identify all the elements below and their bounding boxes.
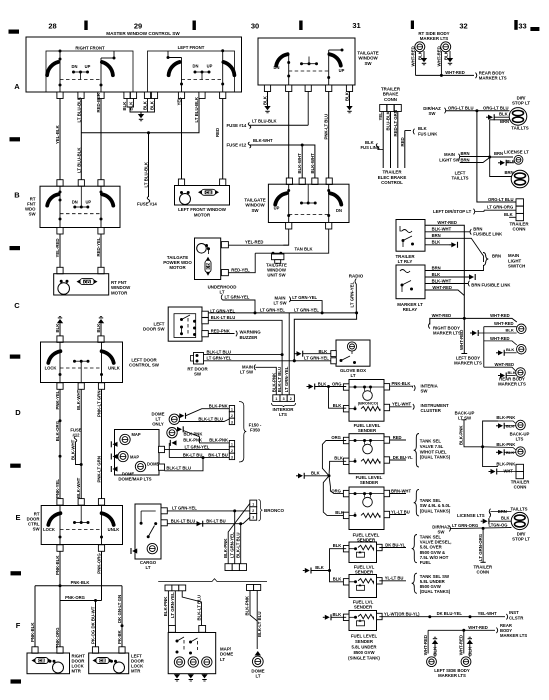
rt side body marker lamp 1 <box>415 42 425 52</box>
svg-text:BLK-PNK: BLK-PNK <box>496 462 515 467</box>
svg-text:PNK-LT GRN: PNK-LT GRN <box>97 456 102 482</box>
svg-text:BLK: BLK <box>504 212 513 217</box>
map dome lt box <box>168 633 216 674</box>
warning buzzer callout <box>240 330 262 340</box>
sender4 feed <box>333 543 342 548</box>
master window control switch box <box>26 31 242 92</box>
left door lock caption <box>131 654 145 674</box>
tailgate power motor pins <box>221 242 228 276</box>
svg-text:FUSIBLE LINK: FUSIBLE LINK <box>473 232 502 237</box>
rt fnt window motor pins <box>57 267 104 274</box>
tailgate A pin x288.7 <box>286 85 292 92</box>
dome lamp single <box>252 651 263 667</box>
svg-text:MOTOR: MOTOR <box>194 212 211 217</box>
svg-text:TRAILER: TRAILER <box>382 170 402 175</box>
inst clstr callout <box>509 610 524 620</box>
svg-text:CONTROL SW: CONTROL SW <box>129 363 160 368</box>
fuse 12 branch <box>70 427 81 464</box>
svg-text:BLK: BLK <box>334 456 343 461</box>
svg-text:SW: SW <box>194 372 202 377</box>
trailer lt rly caption <box>395 254 415 264</box>
glove box internals <box>340 351 357 364</box>
svg-text:BLK-PNK: BLK-PNK <box>183 438 202 443</box>
blk-lt blu wire to conn A <box>179 416 229 421</box>
master sw pin x222.7 <box>220 92 226 99</box>
svg-text:STOP LT: STOP LT <box>512 537 530 542</box>
svg-text:MAP/: MAP/ <box>220 646 232 651</box>
svg-text:BLK: BLK <box>129 101 134 111</box>
blk-pnk row to conn B <box>183 437 229 443</box>
right front dashed link <box>60 79 101 81</box>
svg-text:RED-YEL: RED-YEL <box>96 237 101 256</box>
tank sel valve diesel brace <box>412 535 452 566</box>
sender5 caption <box>353 600 374 610</box>
grid ruler top <box>9 20 540 34</box>
svg-text:LT GRN-YEL: LT GRN-YEL <box>172 505 197 510</box>
left side lamp 1 <box>423 630 438 666</box>
svg-text:WHT-RED: WHT-RED <box>432 313 452 318</box>
blk-pnk wire lamp2 <box>178 429 202 436</box>
rear body marker feed wire <box>416 70 507 81</box>
tailgate power motor CB <box>205 257 211 276</box>
svg-text:UP: UP <box>85 199 91 204</box>
svg-text:BLK-LT BLU: BLK-LT BLU <box>171 518 196 523</box>
svg-text:BLK: BLK <box>311 471 320 476</box>
master sw pin x127 <box>124 92 130 99</box>
svg-text:PNK-YEL: PNK-YEL <box>55 479 60 498</box>
taillts caption 2 <box>510 507 527 512</box>
sender6 out <box>379 611 507 619</box>
dome lt wires <box>245 591 262 650</box>
tailgate A left arc <box>276 54 287 65</box>
wire RED-YEL <box>96 234 101 268</box>
left door ctrl labels <box>45 365 120 370</box>
svg-text:BLK: BLK <box>506 328 514 333</box>
svg-text:VALVE 7.5L: VALVE 7.5L <box>420 444 444 449</box>
rt door ctrl right arc <box>102 513 114 525</box>
marker rly blk-wht row <box>425 278 510 287</box>
svg-text:SW: SW <box>33 526 41 531</box>
main light switch brace (col 32) <box>483 253 525 269</box>
svg-text:BLK: BLK <box>150 100 155 110</box>
svg-text:SW: SW <box>29 212 37 217</box>
rt fnt window motor caption <box>111 280 131 295</box>
svg-text:DOME: DOME <box>147 461 160 466</box>
back-up lamp 1 <box>496 415 525 430</box>
svg-text:BLK: BLK <box>319 349 328 354</box>
svg-text:3: 3 <box>252 516 254 520</box>
svg-text:PNK-LT GRN: PNK-LT GRN <box>97 391 102 417</box>
svg-text:ORG-LT BLU: ORG-LT BLU <box>488 197 514 202</box>
svg-text:LT GRN-ORG: LT GRN-ORG <box>487 205 513 210</box>
wire BLK pins to ground <box>122 99 155 113</box>
wht-red to lamps right <box>464 313 517 322</box>
svg-text:SWITCH: SWITCH <box>508 264 525 269</box>
bronco lower connector strip <box>225 564 247 571</box>
svg-text:WHT-RED: WHT-RED <box>459 330 464 350</box>
rt door sw connector <box>191 353 204 365</box>
cargo pins <box>161 508 167 526</box>
svg-text:BLK: BLK <box>333 577 342 582</box>
svg-text:YEL-RED: YEL-RED <box>245 240 263 245</box>
svg-text:SENDER: SENDER <box>360 480 379 485</box>
svg-text:RED: RED <box>393 435 402 440</box>
wire LT BLU-BLK vertical <box>76 96 81 179</box>
svg-text:BRN FUSIBLE LINK: BRN FUSIBLE LINK <box>471 283 510 288</box>
right front switch left arc <box>47 62 58 75</box>
left door ctrl left arc <box>48 351 60 363</box>
svg-text:DOME: DOME <box>122 472 135 477</box>
svg-text:RELAY: RELAY <box>403 307 418 312</box>
sender5 out <box>379 576 406 581</box>
tailgate A dashed link <box>289 70 329 72</box>
marker lamp1 wires <box>411 46 428 75</box>
interior lts wires <box>271 313 289 395</box>
sender4 caption <box>354 565 375 575</box>
svg-text:CONN: CONN <box>513 227 526 232</box>
svg-text:DN: DN <box>72 199 78 204</box>
rt door sw caption <box>187 366 208 376</box>
map lamp 1 <box>120 432 141 444</box>
svg-text:3: 3 <box>283 397 285 401</box>
svg-text:YL-LT BU: YL-LT BU <box>385 576 404 581</box>
pnk-blk horizontal <box>35 580 122 587</box>
trailer elec brake control caption <box>378 170 407 186</box>
license lts callout <box>457 512 491 518</box>
map dome upper connector <box>165 585 186 591</box>
rt side body marker lts caption <box>418 31 449 41</box>
svg-text:2: 2 <box>231 449 233 453</box>
glove box lt caption <box>340 368 366 378</box>
left door ctrl right arc <box>102 351 114 363</box>
right front wiper posts <box>59 50 116 93</box>
svg-text:1: 1 <box>275 397 277 401</box>
svg-text:YEL-WHT: YEL-WHT <box>478 611 498 616</box>
wire RED-BLK <box>96 92 101 179</box>
glove box lt grn-yel wire <box>293 356 331 363</box>
svg-text:3: 3 <box>231 455 233 459</box>
svg-text:ORG-LT BLU: ORG-LT BLU <box>483 105 509 110</box>
svg-text:BLK-LT BLU: BLK-LT BLU <box>166 465 191 470</box>
svg-text:(SINGLE TANK): (SINGLE TANK) <box>348 655 380 660</box>
svg-text:RADIO: RADIO <box>349 273 364 278</box>
ground below master sw BLK pins <box>138 112 144 121</box>
fuse #14 upper callout <box>227 118 309 128</box>
taillts brn wire <box>490 119 510 157</box>
svg-text:ORG: ORG <box>331 435 341 440</box>
left door sw lt grn-yel <box>208 308 235 313</box>
svg-text:BLK: BLK <box>432 272 441 277</box>
svg-text:BK-LT BU: BK-LT BU <box>208 452 227 457</box>
svg-text:E: E <box>15 513 20 522</box>
tan blk wire <box>255 229 329 255</box>
dome lt connector <box>247 585 261 591</box>
tailgate A pin x349.5 <box>346 85 352 92</box>
rt door sw blk-lt blu wire <box>204 349 283 354</box>
tailgate B posts <box>287 184 330 222</box>
lt grn-yel wire cargo <box>167 505 250 511</box>
svg-text:SENDER: SENDER <box>355 639 374 644</box>
svg-text:BLK-PNK: BLK-PNK <box>459 425 464 445</box>
master sw pin x60 <box>57 92 63 99</box>
dir stop lamp (row E) <box>511 512 528 529</box>
left front sub-switch box <box>148 45 235 92</box>
left door lock motor box <box>89 653 129 674</box>
svg-text:TAN BLK: TAN BLK <box>295 246 313 251</box>
svg-text:DN: DN <box>336 208 342 213</box>
svg-text:SW: SW <box>429 111 437 116</box>
back-up bus <box>483 421 498 467</box>
svg-text:BLK-LT BLU: BLK-LT BLU <box>207 349 232 354</box>
svg-text:FUSE #12: FUSE #12 <box>227 143 247 148</box>
svg-text:TANK SEL: TANK SEL <box>420 439 442 444</box>
svg-text:LT GRN-YEL: LT GRN-YEL <box>350 281 355 307</box>
svg-text:BLK-WHT: BLK-WHT <box>76 477 81 498</box>
svg-text:ORG: ORG <box>331 489 341 494</box>
svg-text:RED-LT GRN: RED-LT GRN <box>393 110 398 136</box>
dome map pins <box>159 446 165 470</box>
left front motor circle <box>180 191 191 205</box>
svg-text:BLK: BLK <box>506 347 514 352</box>
svg-text:1: 1 <box>231 443 233 447</box>
svg-text:32: 32 <box>459 22 467 31</box>
tailgate B bottom pins <box>286 223 332 230</box>
svg-text:YEL: YEL <box>378 112 383 121</box>
svg-text:1: 1 <box>252 502 254 506</box>
svg-text:YEL-BLK: YEL-BLK <box>55 124 60 144</box>
svg-text:LT BLU-BLK: LT BLU-BLK <box>144 161 149 187</box>
svg-text:DOME/MAP LTS: DOME/MAP LTS <box>118 476 151 481</box>
svg-text:BLK-LT BLU: BLK-LT BLU <box>197 595 202 621</box>
svg-text:BLK-LT BLU: BLK-LT BLU <box>236 533 241 559</box>
sender2 red out <box>390 435 406 440</box>
fuel level sender 1 (bronco) <box>343 380 389 422</box>
svg-text:BRN: BRN <box>461 151 470 156</box>
marker lamp chain 1 <box>470 321 526 367</box>
left door sw blk-lt blu <box>208 315 282 395</box>
dome lamp 3 <box>135 461 159 471</box>
dome lt only lamp <box>169 413 185 425</box>
master sw pin x181.5 <box>178 92 184 99</box>
blk-lt blu wire cargo <box>167 518 249 527</box>
blk fus link callout (trailer brake) <box>361 140 384 150</box>
svg-text:MARKER LTS: MARKER LTS <box>420 36 449 41</box>
trailer rly wht-red row <box>425 220 464 319</box>
tailgate A pin x267.5 <box>264 85 270 92</box>
left door lock motor pins <box>92 647 125 654</box>
svg-text:30: 30 <box>251 22 259 31</box>
trailer brake conn connector <box>380 87 402 112</box>
svg-text:MARKER LTS: MARKER LTS <box>438 673 466 678</box>
svg-text:CONN: CONN <box>476 570 489 575</box>
svg-text:BLK: BLK <box>335 510 344 515</box>
svg-text:BLK: BLK <box>318 381 327 386</box>
tank sel sw 4.9 brace <box>414 489 451 516</box>
dir haz sw callout <box>423 106 445 116</box>
wire LT BLU-BLK jog <box>81 99 199 135</box>
svg-text:WHT-RED: WHT-RED <box>436 46 441 66</box>
svg-text:UNIT SW: UNIT SW <box>267 273 286 278</box>
dome map arrows <box>111 441 117 472</box>
svg-text:FUEL: FUEL <box>420 560 432 565</box>
rt fnt window motor box <box>54 274 109 295</box>
rt door ctrl top pins <box>57 499 105 506</box>
svg-text:LT BLU-BLK: LT BLU-BLK <box>76 147 81 173</box>
marker lamp chain 3 (rear body) <box>484 362 526 387</box>
svg-text:BLK: BLK <box>333 403 342 408</box>
wire RED <box>215 99 223 180</box>
svg-text:SW 4.9L & 5.0L: SW 4.9L & 5.0L <box>420 503 451 508</box>
svg-text:WHT-RED: WHT-RED <box>495 362 515 367</box>
tailgate B dashed link <box>289 214 329 216</box>
dk gn-lt gn branch <box>117 586 124 647</box>
svg-text:FUSE #14: FUSE #14 <box>227 123 247 128</box>
svg-text:BLK: BLK <box>333 543 342 548</box>
marker rly blk row <box>425 272 475 280</box>
sender3 caption <box>353 533 380 543</box>
left taillts <box>451 157 528 188</box>
left door ctrl bottom pins <box>57 383 105 390</box>
tailgate A right arc <box>329 54 340 65</box>
right body marker lts caption <box>433 325 461 335</box>
svg-text:YEL-RED: YEL-RED <box>55 238 60 257</box>
long brace over map/dome <box>158 579 267 582</box>
master sw pin x133.5 <box>130 92 136 99</box>
trailer lt relay box <box>396 220 425 252</box>
svg-text:RED-YEL: RED-YEL <box>231 268 250 273</box>
svg-text:BLK-PNK: BLK-PNK <box>271 372 276 392</box>
fuel lvl sender 5 <box>343 575 382 598</box>
trailer conn (col 33 row B) <box>509 199 529 232</box>
svg-text:LT: LT <box>350 373 355 378</box>
rt fnt bottom pins <box>57 228 104 235</box>
connector A (F150) <box>229 406 234 425</box>
tailgate window unit sw connector <box>266 254 287 278</box>
svg-text:C: C <box>14 301 20 310</box>
fuse #14 lower callout <box>137 197 157 207</box>
svg-text:PNK-BLK: PNK-BLK <box>392 381 411 386</box>
lt grn-yel row to conn B <box>165 444 230 449</box>
svg-text:BLK: BLK <box>501 516 509 521</box>
svg-text:SW: SW <box>364 61 372 66</box>
svg-text:BRN: BRN <box>492 253 501 258</box>
rt door ctrl dots <box>73 506 90 525</box>
rt door ctrl posts <box>59 506 104 545</box>
left door sw caption <box>143 321 165 331</box>
master sw pin x202 <box>199 92 205 99</box>
trailer conn lower wires <box>489 462 524 479</box>
svg-text:BLK-PNK: BLK-PNK <box>163 596 168 616</box>
bronco harness verticals <box>223 504 250 564</box>
back-up lts caption <box>510 431 530 441</box>
svg-text:FUS LINK: FUS LINK <box>418 131 437 136</box>
trailer conn callout (row E) <box>473 565 493 575</box>
left door sw box <box>168 307 202 341</box>
svg-text:TANK SEL: TANK SEL <box>420 498 442 503</box>
left front wiper posts <box>167 49 225 92</box>
trailer lt relay internals <box>400 226 414 247</box>
svg-text:SW: SW <box>421 389 429 394</box>
left door sw pins <box>202 311 209 337</box>
radio callout <box>349 273 364 313</box>
svg-text:DK BU-YL: DK BU-YL <box>393 455 413 460</box>
left door ctrl dashed <box>60 367 102 369</box>
svg-text:LT BLU-BLK: LT BLU-BLK <box>252 118 277 123</box>
svg-text:UNLK: UNLK <box>108 527 120 532</box>
left front switch right arc <box>223 62 234 75</box>
bk-lt bu row to conn B <box>169 452 229 459</box>
rt door ctrl caption <box>27 511 41 531</box>
rt fnt dashed link <box>60 213 101 215</box>
svg-text:DK GN-LT GN: DK GN-LT GN <box>117 595 122 623</box>
svg-text:BLK-WHT: BLK-WHT <box>432 226 452 231</box>
map dome pins <box>169 626 206 633</box>
rt door ctrl bottom pins <box>57 545 105 552</box>
svg-text:RED-PNK: RED-PNK <box>211 328 230 333</box>
svg-text:MTR: MTR <box>72 669 82 674</box>
svg-text:BLK: BLK <box>122 101 127 111</box>
svg-text:CB: CB <box>38 658 44 663</box>
svg-text:WHT-RED: WHT-RED <box>468 625 488 630</box>
blk arrow taillts2 <box>481 516 512 525</box>
wire PNK-ORG vert <box>97 551 102 600</box>
fuel sender X junction <box>296 435 346 515</box>
left dir/stop lt callout <box>433 209 484 215</box>
tailgate A DN UP <box>274 65 345 73</box>
svg-text:YEL-WHT: YEL-WHT <box>392 402 412 407</box>
svg-text:BRN: BRN <box>432 265 441 270</box>
svg-text:STOP LT: STOP LT <box>512 101 530 106</box>
svg-text:WHT-RED: WHT-RED <box>459 635 464 655</box>
sender6 feed <box>323 612 346 621</box>
svg-text:LICENSE LTS: LICENSE LTS <box>457 513 485 518</box>
wire YEL-RED <box>55 234 60 268</box>
svg-text:LT GRN-YEL: LT GRN-YEL <box>207 356 232 361</box>
left front window motor box <box>175 186 230 206</box>
sender5 feed label <box>333 577 342 582</box>
svg-text:RIGHT FRONT: RIGHT FRONT <box>75 46 105 51</box>
tailgate A BLK left ground <box>263 92 271 113</box>
svg-text:ORG: ORG <box>332 381 342 386</box>
svg-text:3: 3 <box>231 420 233 424</box>
dir stop lt caption (top) <box>512 96 530 106</box>
dir stop taillamp (top) <box>509 108 527 126</box>
fuel level sender 2 <box>343 434 389 474</box>
svg-text:RED: RED <box>400 137 405 146</box>
svg-text:(BRONCO): (BRONCO) <box>358 400 379 405</box>
svg-text:WHT-RED: WHT-RED <box>432 285 452 290</box>
bronco connector <box>250 500 257 520</box>
svg-text:LT GRN-YEL: LT GRN-YEL <box>294 307 319 312</box>
svg-text:BLK: BLK <box>508 370 516 375</box>
svg-text:BLK: BLK <box>263 95 268 105</box>
svg-text:PNK-LT BLU: PNK-LT BLU <box>324 114 329 140</box>
wire to fuse 14 lower <box>144 133 149 197</box>
left front window motor pins <box>178 179 225 186</box>
left door lock CB <box>93 658 113 664</box>
svg-text:CLUSTER: CLUSTER <box>421 408 442 413</box>
marker lt relay box <box>396 265 425 299</box>
svg-text:LT SW: LT SW <box>273 301 287 306</box>
svg-text:YEL: YEL <box>177 97 182 106</box>
instrument cluster callout <box>421 403 450 413</box>
svg-text:PK-BK: PK-BK <box>117 629 122 644</box>
main lt sw callout (row C) <box>273 295 322 313</box>
svg-text:PNK-BLK: PNK-BLK <box>55 555 60 575</box>
svg-text:LT GRN-ORG: LT GRN-ORG <box>452 523 478 528</box>
dome lt caption <box>251 668 264 678</box>
svg-text:BRN: BRN <box>494 151 503 156</box>
